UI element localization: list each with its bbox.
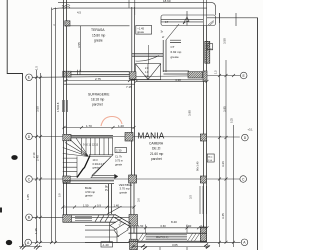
- svg-text:1.85: 1.85: [26, 194, 30, 200]
- svg-text:0.9: 0.9: [59, 193, 62, 197]
- sufragerie right wall: [132, 80, 135, 179]
- vertical line through canopy: [186, 11, 188, 26]
- stair top beam: [63, 135, 113, 137]
- camera bottom wall: [129, 233, 208, 241]
- terrace right wall upper: [132, 7, 135, 79]
- wall segment in canopy: [161, 20, 203, 22]
- svg-text:1.35: 1.35: [34, 228, 38, 234]
- bottom vertical stubs: [160, 242, 220, 250]
- canopy edge line: [52, 8, 207, 9]
- terrace inner dim line: [65, 25, 130, 27]
- dim ticks y227.8: [127, 226, 209, 229]
- sheet border left stepped: [7, 0, 22, 246]
- step risers: [110, 226, 119, 238]
- svg-text:90+75 (1.1): 90+75 (1.1): [156, 236, 168, 239]
- svg-text:gresie: gresie: [171, 55, 180, 59]
- entrance door swing: [107, 206, 122, 214]
- hole punch blob middle-left: [11, 155, 17, 160]
- svg-text:4.5: 4.5: [77, 11, 81, 15]
- svg-text:2.0: 2.0: [145, 67, 149, 70]
- grid line E: [32, 76, 240, 78]
- window in bottom wall: [75, 217, 92, 221]
- svg-text:3r: 3r: [161, 30, 163, 34]
- bottom wall hatch left: [63, 215, 72, 222]
- top extension verticals: [129, 0, 135, 15]
- bubble C right: [240, 176, 247, 183]
- svg-text:90+1.40: 90+1.40: [196, 161, 200, 171]
- svg-text:gresie: gresie: [115, 163, 123, 167]
- window in left wall: [63, 100, 68, 112]
- dim line below bottom wall: [133, 246, 207, 248]
- exterior steps: [85, 219, 131, 243]
- svg-text:0.30x0.17: 0.30x0.17: [93, 162, 105, 166]
- svg-text:gresie: gresie: [85, 194, 93, 198]
- hall bottom wall: [63, 181, 114, 184]
- hatch block below: [130, 239, 138, 249]
- right wall hatch D: [200, 134, 206, 141]
- porch bottom line: [131, 79, 203, 81]
- grid line D: [32, 136, 240, 139]
- A line ticks right: [218, 241, 235, 244]
- svg-text:1.50/0.8: 1.50/0.8: [56, 102, 60, 112]
- svg-text:C: C: [28, 177, 31, 181]
- bubble A right: [241, 239, 248, 246]
- bubble B left: [26, 214, 33, 221]
- C line ticks right: [218, 178, 228, 181]
- D line ticks right: [218, 136, 228, 139]
- terrace east bay divider: [148, 45, 150, 64]
- window extension ticks bottom: [146, 225, 187, 234]
- window tick in E wall: [78, 70, 81, 75]
- svg-text:1.70: 1.70: [86, 124, 92, 128]
- svg-text:0.60: 0.60: [161, 224, 167, 228]
- small label box right of wall: [207, 154, 214, 162]
- right wall hatch C: [200, 176, 206, 183]
- camera bottom wall hatch: [138, 234, 200, 242]
- svg-text:parchet: parchet: [92, 103, 103, 107]
- bubble C left: [26, 176, 33, 183]
- svg-text:~1.45: ~1.45: [137, 27, 144, 31]
- step verticals: [110, 223, 118, 243]
- svg-text:1.5: 1.5: [35, 66, 39, 70]
- svg-text:E: E: [243, 74, 246, 78]
- dim chain x51.5: [51, 8, 53, 244]
- canopy detail rounded box: [161, 15, 216, 26]
- svg-text:2.75: 2.75: [95, 77, 101, 81]
- north wall of lower wing (E line): [64, 72, 130, 75]
- svg-text:CT: CT: [171, 45, 175, 49]
- canopy box flag: [183, 17, 189, 24]
- svg-text:2.40: 2.40: [36, 155, 40, 161]
- svg-text:-1.40: -1.40: [102, 243, 109, 247]
- svg-text:E: E: [28, 76, 31, 80]
- sheet border right: [257, 18, 259, 250]
- svg-text:A: A: [243, 241, 246, 245]
- svg-text:18.60: 18.60: [163, 0, 171, 3]
- bottom-left frame marks: [19, 246, 42, 248]
- camera left wall lower: [131, 183, 134, 233]
- svg-text:60: 60: [208, 46, 211, 48]
- stair upper flight treads: [82, 138, 113, 155]
- hole punch blob bottom-left: [6, 240, 12, 245]
- dim ticks y246.5: [132, 245, 209, 248]
- bubble D right: [242, 134, 249, 141]
- svg-text:0.75 m: 0.75 m: [115, 159, 123, 163]
- bubble E left: [26, 74, 33, 81]
- svg-text:3.5: 3.5: [189, 195, 193, 199]
- svg-text:2r: 2r: [162, 35, 164, 39]
- canopy right angled mark: [208, 21, 214, 26]
- splay wall: [115, 215, 132, 227]
- svg-text:parchet: parchet: [151, 157, 162, 161]
- terrace vertical dim: [80, 26, 82, 72]
- svg-text:3.95: 3.95: [222, 106, 226, 112]
- E line ticks right: [218, 74, 235, 77]
- left wall of building: [64, 72, 67, 223]
- baie/vestibul divider wall: [109, 184, 112, 214]
- svg-text:3.65: 3.65: [172, 243, 178, 247]
- svg-text:8.40: 8.40: [171, 220, 177, 224]
- dim line 2.75: [64, 80, 135, 82]
- svg-text:2buc: 2buc: [208, 157, 214, 159]
- left chain intersection ticks: [35, 76, 57, 244]
- label box above: [136, 26, 152, 35]
- dim ticks y207: [61, 206, 135, 209]
- svg-text:15.80 mp: 15.80 mp: [92, 34, 106, 38]
- chimney block: [205, 41, 210, 63]
- column at C line center: [129, 175, 137, 183]
- right wall hatch E: [203, 71, 207, 81]
- CT room left wall: [163, 40, 166, 72]
- svg-text:2.10: 2.10: [32, 152, 36, 158]
- right wall window: [200, 186, 207, 214]
- camera bottom window: [146, 235, 187, 240]
- bubble D left: [26, 133, 33, 140]
- svg-text:+3.1: +3.1: [248, 128, 254, 132]
- stair walk arrow Z: [89, 155, 115, 178]
- dim line above bottom wall: [129, 227, 208, 229]
- svg-text:6.92 mp: 6.92 mp: [171, 50, 182, 54]
- dim chain x40.5: [40, 73, 42, 243]
- dim line in baie row: [63, 206, 134, 208]
- dim line above stairs: [63, 127, 134, 129]
- hatch marks bottom wall: [95, 215, 114, 222]
- svg-text:3.90: 3.90: [188, 110, 192, 116]
- stair beam hatch left: [63, 134, 71, 141]
- CT bottom wall: [164, 71, 190, 74]
- right wall of building: [204, 26, 207, 242]
- stair lower flight treads: [63, 158, 77, 172]
- bottom-center marks: [141, 244, 210, 250]
- svg-text:21.60 mp: 21.60 mp: [150, 152, 164, 156]
- wall below camera continuing: [131, 227, 137, 250]
- svg-text:3.0: 3.0: [137, 198, 141, 202]
- svg-text:1.50: 1.50: [138, 224, 144, 228]
- svg-text:1.40: 1.40: [114, 203, 120, 207]
- svg-text:18.18 mp: 18.18 mp: [91, 98, 105, 102]
- svg-text:gresie: gresie: [94, 39, 103, 43]
- wall block at E-left: [63, 71, 71, 77]
- top rounded corner canopy: [211, 3, 216, 15]
- wall break squiggle: [62, 5, 70, 9]
- dim ticks y80.5: [65, 79, 209, 83]
- grid line A: [31, 241, 240, 243]
- svg-text:2.30: 2.30: [116, 149, 122, 153]
- lower flight right edge: [76, 157, 78, 178]
- watermark arc: [101, 117, 122, 127]
- hatch block left of porch: [129, 72, 136, 79]
- svg-text:gresie: gresie: [120, 190, 128, 194]
- CT door diagonal: [166, 24, 179, 40]
- svg-text:CAMERA: CAMERA: [149, 142, 164, 146]
- edge smudge: [0, 208, 2, 213]
- svg-text:19 tr: 19 tr: [93, 158, 98, 162]
- svg-text:CL 7h: CL 7h: [115, 155, 122, 159]
- svg-text:1.20: 1.20: [118, 124, 124, 128]
- stair cut diagonal: [77, 156, 90, 178]
- svg-text:3.26: 3.26: [221, 161, 225, 167]
- window label box right: [207, 44, 213, 50]
- svg-text:D: D: [244, 136, 247, 140]
- dim chain x36.5: [36, 70, 38, 243]
- grid line C: [32, 178, 240, 180]
- svg-text:0.25: 0.25: [231, 118, 234, 123]
- svg-text:1.50: 1.50: [83, 203, 89, 207]
- svg-text:D: D: [28, 135, 31, 139]
- svg-text:3.45: 3.45: [221, 213, 225, 219]
- column at D line: [125, 133, 133, 142]
- svg-text:9 10 11 12 13: 9 10 11 12 13: [83, 144, 99, 147]
- svg-text:gresie: gresie: [137, 31, 144, 34]
- svg-text:B: B: [28, 216, 31, 220]
- winder fan lines: [63, 138, 89, 157]
- porch X structure: [135, 64, 160, 80]
- svg-text:3.55: 3.55: [77, 42, 81, 48]
- right wall hatch bottom: [200, 227, 206, 242]
- svg-text:1.0: 1.0: [145, 71, 149, 74]
- terrace left wall: [64, 0, 67, 72]
- svg-text:MANIA: MANIA: [138, 132, 165, 141]
- dim chain x55.5: [55, 8, 57, 244]
- bottom wall left wing: [63, 215, 116, 222]
- dim line 4.10: [136, 80, 207, 82]
- right dim chain 3: [233, 125, 235, 247]
- svg-text:TERASA: TERASA: [91, 28, 105, 32]
- dim line 7.15: [64, 83, 135, 85]
- bubble A left: [25, 239, 32, 246]
- dim ticks y127.5: [63, 126, 136, 129]
- right dim chain 2: [225, 60, 227, 242]
- bubble E right: [240, 72, 247, 79]
- svg-text:C: C: [242, 177, 245, 181]
- grid line B: [32, 216, 135, 218]
- hatch block CT bottom right: [188, 72, 203, 78]
- svg-text:DE ZI: DE ZI: [152, 147, 161, 151]
- camera left wall hatch lower: [129, 215, 138, 227]
- terrace corner column: [65, 21, 70, 26]
- svg-text:gresie: gresie: [93, 166, 101, 170]
- CT top wall: [170, 40, 181, 42]
- wall y54: [132, 54, 164, 56]
- step label box: [101, 242, 113, 247]
- svg-text:SUFRAGERIE: SUFRAGERIE: [88, 93, 110, 97]
- top right dim tick 2: [235, 13, 237, 26]
- svg-text:3.50: 3.50: [36, 106, 40, 112]
- svg-text:4.10: 4.10: [175, 78, 181, 82]
- svg-text:3.50: 3.50: [222, 38, 226, 44]
- svg-text:A: A: [27, 241, 30, 245]
- right dim chain 1: [219, 13, 221, 242]
- left wall hatch at C line: [63, 176, 70, 182]
- svg-text:1.5: 1.5: [214, 70, 218, 74]
- right wall top stub: [204, 0, 207, 26]
- door arc terrace: [136, 56, 160, 62]
- top dim line: [58, 2, 211, 4]
- svg-text:0.9: 0.9: [97, 203, 101, 207]
- info box right of stairs: [115, 148, 127, 153]
- svg-text:0.4: 0.4: [201, 224, 205, 228]
- arrowhead: [115, 174, 119, 179]
- top right dim line: [207, 17, 258, 19]
- top right dim tick 1: [219, 13, 221, 23]
- lower flight bottom edge: [63, 176, 77, 178]
